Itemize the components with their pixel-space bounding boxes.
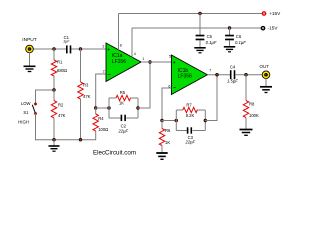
node: C4/R8 junction [245, 73, 248, 76]
svg-text:R4: R4 [98, 116, 104, 121]
ground (C6) [224, 47, 235, 52]
svg-text:1: 1 [142, 57, 144, 61]
svg-text:+15V: +15V [269, 11, 281, 16]
svg-text:R1: R1 [57, 60, 63, 65]
svg-text:0.1µF: 0.1µF [235, 40, 246, 45]
ground (R8) [240, 130, 253, 136]
node: junction C1/R3/pin3 [79, 48, 82, 51]
svg-text:+: + [173, 61, 176, 66]
capacitor C1 1uF [63, 35, 71, 53]
svg-text:C6: C6 [236, 34, 242, 39]
resistor R7 8.2K [183, 103, 197, 118]
svg-text:R7: R7 [186, 103, 192, 108]
node: box1 right junction [137, 107, 140, 110]
ground (R6) [156, 153, 167, 159]
wire pin 4 to -15V rail [131, 28, 133, 57]
wire pin 6 of IC1b to node B [162, 88, 171, 121]
svg-text:R3: R3 [83, 83, 89, 88]
wire pin 8 to +15V rail [118, 14, 120, 51]
svg-text:1K: 1K [165, 140, 170, 145]
svg-text:1.5µF: 1.5µF [227, 79, 238, 84]
resistor R1 680ohm [51, 49, 67, 90]
svg-text:680Ω: 680Ω [57, 68, 67, 73]
connector J1 INPUT [22, 37, 36, 53]
node: junction C1/R1 [53, 48, 56, 51]
wire feedback box 2 frame [176, 110, 205, 131]
capacitor C5 0.1uF [196, 14, 217, 48]
svg-text:22pF: 22pF [185, 140, 196, 145]
connector +15V [262, 11, 282, 16]
resistor R5 1K [116, 90, 130, 106]
wire IC1a output to pin 5 of IC1b [141, 61, 171, 63]
svg-text:R8: R8 [249, 102, 255, 107]
resistor R3 47K [78, 49, 91, 140]
connector J2 OUT [260, 64, 270, 78]
node: junction R2/bus [53, 138, 56, 141]
wire +15V rail [119, 13, 265, 15]
svg-text:+: + [107, 48, 110, 53]
node: IC1a output junction [149, 61, 152, 64]
ground (input jack) [24, 66, 36, 71]
node: output/feedback junction [216, 73, 219, 76]
resistor R4 100ohm [93, 108, 108, 140]
switch S1 [18, 90, 37, 141]
ground (OUT jack) [260, 87, 272, 93]
svg-text:0.1µF: 0.1µF [206, 40, 217, 45]
node: box1 left junction [108, 107, 111, 110]
svg-text:4: 4 [134, 52, 136, 56]
svg-text:OUT: OUT [260, 64, 270, 69]
svg-text:2: 2 [103, 70, 105, 74]
wire pin 2 of IC1a to node A [96, 74, 106, 108]
svg-text:100K: 100K [249, 113, 259, 118]
node: junction R3/bus [79, 138, 82, 141]
node B junction [161, 119, 164, 122]
resistor R8 100K [243, 75, 259, 129]
svg-text:100Ω: 100Ω [98, 127, 108, 132]
wire input jack to ground [29, 53, 31, 66]
node A junction [94, 107, 97, 110]
wire box2 to output of IC1b [205, 75, 217, 121]
svg-text:8: 8 [120, 44, 122, 48]
capacitor C3 22pF [185, 127, 196, 144]
svg-text:8.2K: 8.2K [186, 113, 195, 118]
svg-text:R5: R5 [120, 90, 126, 95]
capacitor C2 22uF [117, 115, 128, 134]
svg-text:-15V: -15V [268, 26, 279, 31]
wire C4 to OUT [235, 74, 262, 76]
svg-text:5: 5 [169, 54, 171, 58]
wire node B to feedback box 2 [162, 120, 176, 122]
wire OUT jack to ground [265, 78, 267, 86]
svg-text:47K: 47K [58, 113, 66, 118]
capacitor C4 1.5uF [227, 64, 238, 83]
svg-text:47K: 47K [83, 94, 91, 99]
op-amp U1a IC1a LF356 [106, 43, 141, 82]
svg-text:LOW: LOW [21, 101, 31, 106]
svg-text:1µF: 1µF [63, 39, 70, 43]
svg-text:C4: C4 [230, 64, 236, 69]
resistor R6 1K [159, 121, 171, 153]
node: box2 right junction [204, 119, 207, 122]
wire input to C1 [33, 48, 67, 50]
resistor R2 47K [51, 90, 65, 140]
svg-text:S1: S1 [23, 110, 29, 115]
wire ground bus [35, 139, 96, 141]
node: junction R1/R2/switch [53, 89, 56, 92]
svg-text:3: 3 [102, 44, 104, 48]
node: box2 left junction [175, 119, 178, 122]
node: C5 junction on +15V rail [199, 12, 202, 15]
svg-text:−: − [173, 86, 176, 92]
op-amp U1b IC1b LF356 [171, 55, 207, 95]
node: C6 junction on -15V rail [228, 27, 231, 30]
svg-text:R6: R6 [165, 128, 171, 133]
svg-text:ElecCircuit.com: ElecCircuit.com [93, 150, 136, 157]
wire -15V rail [132, 27, 263, 29]
wire node A to feedback box 1 [96, 107, 109, 109]
svg-text:1K: 1K [119, 100, 124, 105]
capacitor C6 0.1uF [225, 28, 246, 47]
svg-text:−: − [108, 72, 111, 78]
ground (main bus) [49, 140, 60, 151]
svg-text:7: 7 [209, 69, 211, 73]
svg-text:22µF: 22µF [117, 128, 128, 133]
wire box1 to output of IC1a [138, 62, 150, 108]
connector -15V [261, 26, 279, 31]
svg-text:LF356: LF356 [112, 59, 126, 65]
wire C1 to pin 3 of IC1a [71, 48, 107, 50]
wire switch top [36, 89, 55, 91]
wire IC1b output [207, 74, 230, 76]
svg-text:C5: C5 [207, 34, 213, 39]
svg-text:LF356: LF356 [178, 74, 192, 80]
svg-text:HIGH: HIGH [18, 120, 29, 125]
wire feedback box 1 frame [109, 98, 138, 118]
svg-text:INPUT: INPUT [22, 37, 36, 43]
ground (C5) [194, 48, 205, 53]
svg-text:R2: R2 [58, 103, 64, 108]
